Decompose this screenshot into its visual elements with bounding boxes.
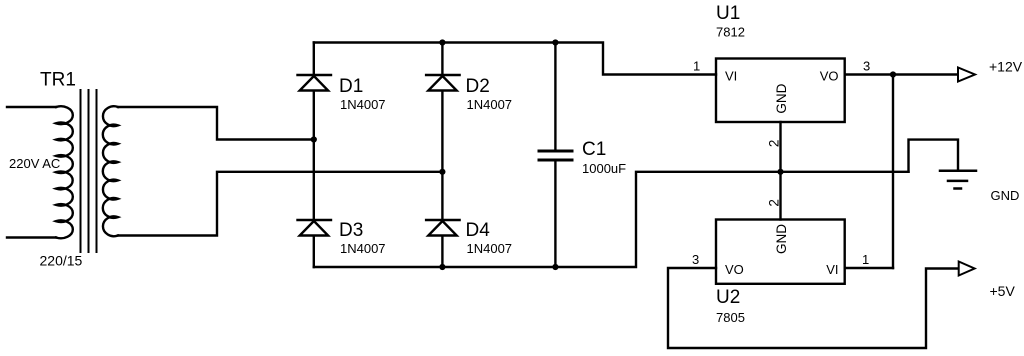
svg-text:1: 1 xyxy=(693,59,700,74)
wire bridge bottom rail / ground rail xyxy=(314,172,909,267)
node junction +12V branch xyxy=(890,71,896,77)
node junction bridge mid right xyxy=(439,169,445,175)
svg-text:D4: D4 xyxy=(466,220,491,241)
svg-text:1N4007: 1N4007 xyxy=(340,97,386,112)
regulator IC U2 7805 xyxy=(716,220,845,326)
+12V output arrow xyxy=(958,68,975,82)
+5V output arrow xyxy=(959,262,975,276)
svg-text:VO: VO xyxy=(725,262,744,277)
svg-text:U2: U2 xyxy=(716,287,740,308)
node junction ground rail pin2 xyxy=(777,169,783,175)
wire U1 output to +12V xyxy=(845,73,958,75)
node junction bridge bottom C1 xyxy=(552,264,558,270)
svg-text:+5V: +5V xyxy=(990,283,1016,299)
svg-text:U1: U1 xyxy=(716,3,740,24)
diode D1 xyxy=(298,75,386,112)
wire U2 output loop to +5V xyxy=(668,268,959,348)
transformer TR1 primary winding xyxy=(56,106,73,238)
svg-text:220V AC: 220V AC xyxy=(9,156,60,171)
svg-text:1N4007: 1N4007 xyxy=(467,241,513,256)
wire bridge left rail xyxy=(313,43,315,268)
svg-text:220/15: 220/15 xyxy=(40,253,83,269)
svg-text:+12V: +12V xyxy=(989,59,1023,75)
transformer TR1 core xyxy=(81,90,97,252)
wire +12V node down to U2 pin 1 xyxy=(892,75,894,269)
svg-text:D1: D1 xyxy=(339,76,363,97)
svg-text:GND: GND xyxy=(774,224,789,254)
svg-text:TR1: TR1 xyxy=(40,70,76,91)
diode D4 xyxy=(426,220,512,256)
wire secondary top to bridge xyxy=(118,107,314,140)
svg-text:D2: D2 xyxy=(466,76,490,97)
node junction bridge top C1 xyxy=(552,39,558,45)
svg-text:7812: 7812 xyxy=(716,25,745,40)
svg-text:2: 2 xyxy=(766,140,781,148)
wire bridge top rail to U1 pin 1 xyxy=(314,43,716,75)
svg-text:1: 1 xyxy=(862,252,869,267)
svg-text:1N4007: 1N4007 xyxy=(467,97,513,112)
svg-text:3: 3 xyxy=(692,252,699,267)
wire ground rail hop to ground symbol xyxy=(909,140,959,172)
svg-text:1N4007: 1N4007 xyxy=(340,241,386,256)
svg-text:7805: 7805 xyxy=(716,310,745,325)
svg-text:D3: D3 xyxy=(339,220,363,241)
svg-text:GND: GND xyxy=(991,188,1020,203)
svg-text:2: 2 xyxy=(766,199,781,207)
regulator IC U1 7812 xyxy=(716,3,845,122)
wire primary bottom lead xyxy=(7,236,56,238)
transformer TR1 secondary winding xyxy=(103,106,118,236)
svg-text:C1: C1 xyxy=(582,139,606,160)
wire U2 pin 2 to ground rail xyxy=(779,172,781,220)
wire secondary bottom to bridge mid xyxy=(118,172,442,236)
wire bridge right rail xyxy=(441,43,443,268)
node junction secondary top / bridge left xyxy=(311,136,317,142)
svg-text:3: 3 xyxy=(863,59,870,74)
svg-text:VI: VI xyxy=(826,262,838,277)
diode D3 xyxy=(298,220,386,256)
diode D2 xyxy=(426,75,512,112)
svg-text:GND: GND xyxy=(774,83,789,113)
wire U1 pin 2 to ground rail xyxy=(779,122,781,172)
svg-text:1000uF: 1000uF xyxy=(582,161,626,176)
ground symbol xyxy=(940,171,976,189)
capacitor C1 xyxy=(539,43,626,268)
node junction bridge bottom D4 xyxy=(439,264,445,270)
node junction bridge top D2 xyxy=(439,39,445,45)
svg-text:VI: VI xyxy=(725,68,737,83)
wire primary top lead xyxy=(7,106,56,108)
svg-text:VO: VO xyxy=(820,68,839,83)
wire U2 pin 1 stub xyxy=(845,267,893,269)
